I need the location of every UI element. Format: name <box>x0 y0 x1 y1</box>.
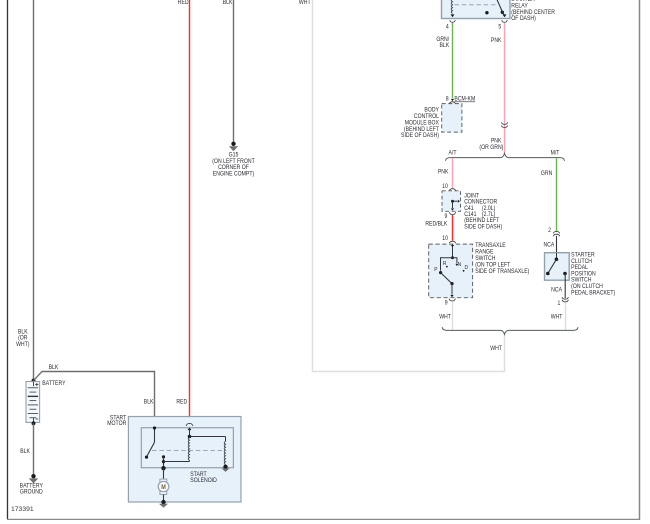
svg-text:10: 10 <box>442 236 448 243</box>
svg-text:10: 10 <box>442 183 448 190</box>
svg-text:5: 5 <box>498 24 501 31</box>
svg-text:MOTOR: MOTOR <box>107 421 126 428</box>
svg-text:ENGINE COMPT): ENGINE COMPT) <box>213 171 254 178</box>
svg-text:OF DASH): OF DASH) <box>511 16 536 23</box>
svg-text:RED/BLK: RED/BLK <box>425 221 447 228</box>
svg-text:WHT: WHT <box>439 314 451 321</box>
svg-text:4: 4 <box>446 24 449 31</box>
svg-text:1: 1 <box>558 301 561 308</box>
svg-text:P: P <box>434 267 438 274</box>
svg-text:BLK: BLK <box>20 449 30 456</box>
svg-text:NCA: NCA <box>543 242 554 249</box>
svg-text:WHT: WHT <box>490 346 502 353</box>
svg-text:WHT: WHT <box>551 314 563 321</box>
svg-text:RED: RED <box>176 399 187 406</box>
svg-text:M/T: M/T <box>551 150 560 157</box>
svg-text:PEDAL BRACKET): PEDAL BRACKET) <box>571 290 615 297</box>
svg-text:BATTERY: BATTERY <box>42 381 65 388</box>
svg-text:D: D <box>465 265 469 272</box>
svg-text:PNK: PNK <box>491 37 502 44</box>
svg-text:R: R <box>443 261 447 268</box>
svg-text:RED: RED <box>178 0 189 6</box>
svg-text:BLK: BLK <box>144 399 154 406</box>
svg-text:8: 8 <box>446 96 449 103</box>
svg-text:NCA: NCA <box>551 287 562 294</box>
svg-text:WHT): WHT) <box>16 342 30 349</box>
svg-text:SIDE OF TRANSAXLE): SIDE OF TRANSAXLE) <box>475 269 529 276</box>
svg-text:M: M <box>161 485 166 492</box>
svg-text:GROUND: GROUND <box>20 489 43 496</box>
svg-text:2: 2 <box>548 228 551 235</box>
svg-text:SIDE OF DASH): SIDE OF DASH) <box>401 133 439 140</box>
svg-text:SIDE OF DASH): SIDE OF DASH) <box>464 224 502 231</box>
svg-text:173391: 173391 <box>11 506 34 513</box>
svg-text:BLK: BLK <box>223 0 233 6</box>
svg-text:(OR GRN): (OR GRN) <box>479 145 503 152</box>
svg-text:PNK: PNK <box>438 169 449 176</box>
svg-text:BLK: BLK <box>49 365 59 372</box>
svg-text:9: 9 <box>445 300 448 307</box>
svg-text:SOLENOID: SOLENOID <box>190 478 217 485</box>
svg-text:WHT: WHT <box>299 0 311 6</box>
svg-text:BLK: BLK <box>439 42 449 49</box>
svg-text:N: N <box>458 261 462 268</box>
svg-text:BCM-KM: BCM-KM <box>454 96 475 103</box>
svg-text:9: 9 <box>445 213 448 220</box>
svg-text:A/T: A/T <box>448 150 456 157</box>
svg-text:GRN: GRN <box>541 170 552 177</box>
